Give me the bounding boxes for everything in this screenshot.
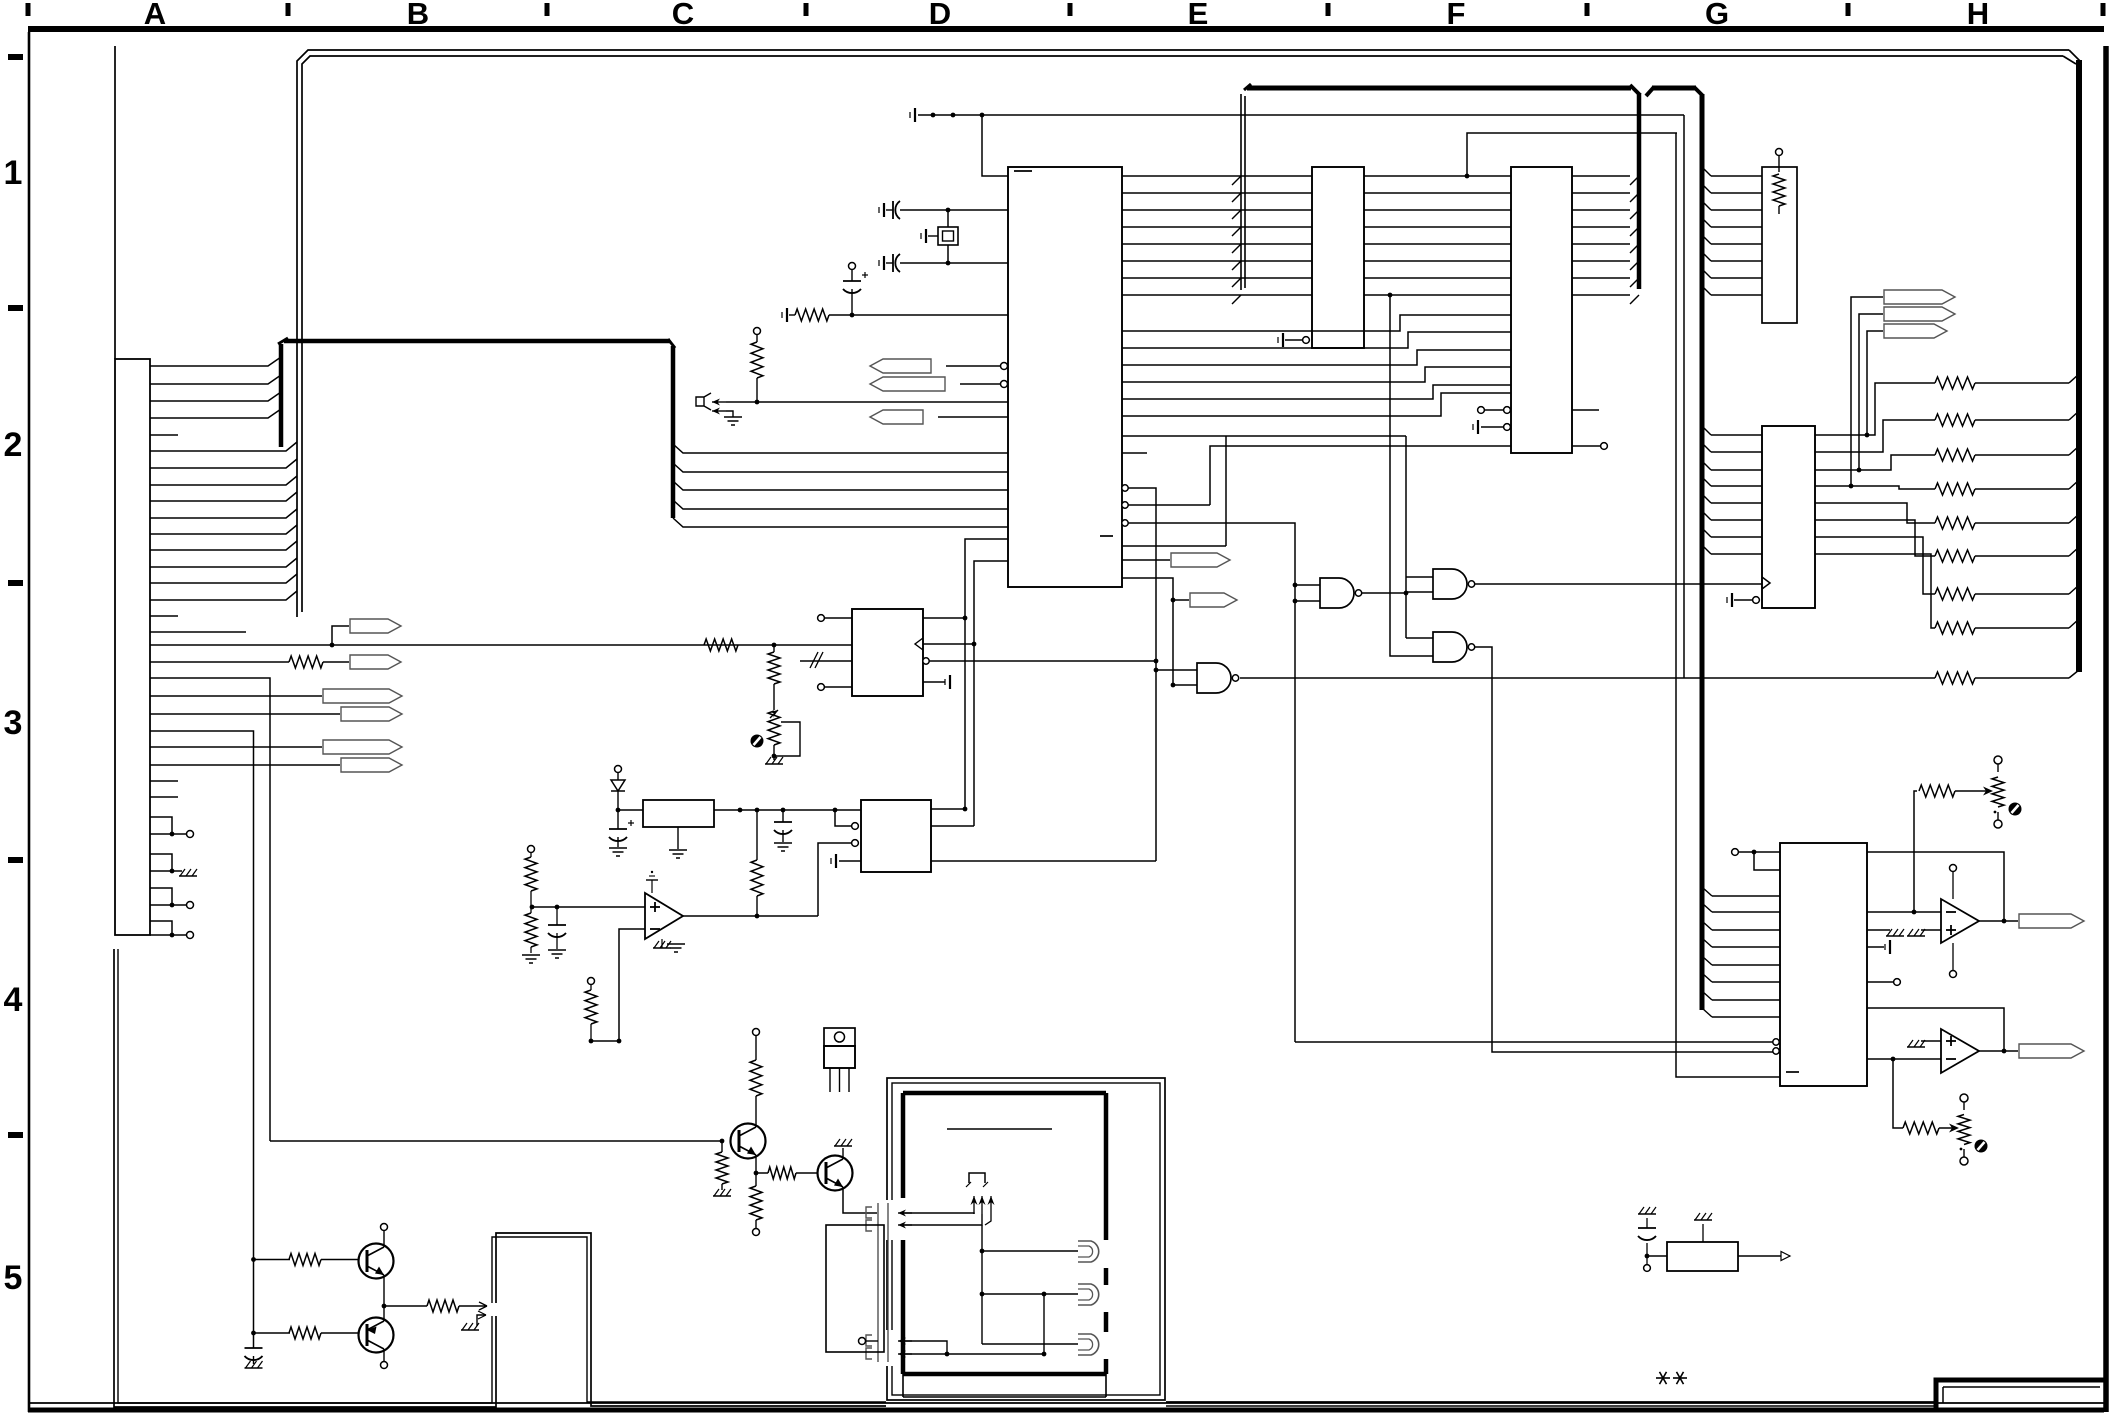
net flag FR3 xyxy=(1884,324,1947,338)
board outline bottom-right segment xyxy=(1166,1401,1935,1403)
CRT socket strip xyxy=(877,1203,879,1362)
OA0 supply marks xyxy=(651,880,653,893)
U6 top pin with testpoint circle xyxy=(1732,849,1739,856)
CRT heater bracket symbol xyxy=(969,1173,985,1183)
TR2 screw symbol xyxy=(2009,803,2022,816)
ladder resistors to right bus xyxy=(1935,377,1975,389)
TR1 screw symbol xyxy=(751,735,764,748)
decoupling cap C2 xyxy=(883,256,885,270)
svg-text:G: G xyxy=(1705,0,1729,31)
resistor R4 to ground xyxy=(786,308,788,322)
vertical V1 from bus wire y297 to GC input xyxy=(1388,293,1393,298)
CRT outer enclosure double box xyxy=(887,1078,1165,1400)
U4 pin3 with circle xyxy=(852,840,859,847)
speaker arrows xyxy=(712,401,726,403)
connector wire y678 to vertical x270 xyxy=(150,678,270,1141)
CRT cathode bus vertical xyxy=(981,1225,983,1344)
main IC U1 xyxy=(1008,167,1122,587)
OA0 - input wire from below xyxy=(619,929,645,1041)
cap C7 xyxy=(556,907,558,925)
IC G2 shift register xyxy=(1762,426,1815,608)
Q5 base resistor xyxy=(254,1259,291,1261)
contrast network vertical xyxy=(1914,791,1917,912)
electrolytic cap C5 xyxy=(609,828,627,830)
svg-text:5: 5 xyxy=(4,1259,23,1297)
svg-text:H: H xyxy=(1967,0,1989,31)
ground Q3 base xyxy=(713,1195,731,1197)
Q3 emitter node xyxy=(755,1155,757,1173)
vertical V2 x1406 to GB/GC inputs xyxy=(1405,436,1407,638)
delay line DL1 xyxy=(1667,1242,1738,1271)
regulator ground pin xyxy=(677,827,679,849)
net flag F560 xyxy=(1171,553,1230,567)
G2 output wires to resistor ladder xyxy=(1815,383,1935,435)
regulator output rail xyxy=(714,809,861,811)
NAND gate GC xyxy=(1433,632,1467,662)
connector jumper loop 1 with test point xyxy=(150,817,172,834)
flag verticals to G2 outputs xyxy=(1851,297,1883,486)
U1 pin y436 wire to V2 xyxy=(1122,435,1406,437)
ground C6 xyxy=(774,842,792,844)
U2 pin1 left with circle xyxy=(818,615,825,622)
bus B3 thick: connector group to U1 xyxy=(279,344,284,447)
Q3 collector resistor and testpoint xyxy=(755,1096,757,1127)
resistor R-sync on y645 xyxy=(704,639,738,651)
GA output wire xyxy=(1362,592,1406,594)
net flag FL2 (left) xyxy=(870,377,945,391)
LED heater H1 xyxy=(982,1250,1078,1252)
bus B1 left tap diagonals xyxy=(1232,176,1241,185)
IC2 ground pin with inverter circle xyxy=(1282,333,1284,347)
U1 flag pin y560 xyxy=(1122,559,1170,561)
net flag FL1 (left) xyxy=(870,359,931,373)
GA input wires from x1295 xyxy=(1295,584,1320,586)
CRT box tray lines xyxy=(902,1374,904,1397)
U2 inverted output y661 long wire xyxy=(923,658,929,664)
U1 pin y578 wire to flag xyxy=(1122,578,1173,685)
Q6 collector to output node xyxy=(383,1306,385,1321)
resistor R5 pullup xyxy=(754,328,761,335)
trimmer TR3 xyxy=(1960,1094,1968,1102)
connector wires group 1 to bus B3 xyxy=(150,357,281,366)
svg-text:D: D xyxy=(929,0,951,31)
U1 top supply rail y115 xyxy=(914,108,916,122)
U2 clock pin y644 xyxy=(915,638,923,650)
IC3 register xyxy=(1511,167,1572,453)
bus B1 right vertical thick xyxy=(1630,85,1640,95)
U4 right pins to x965/x974 xyxy=(931,808,965,810)
note asterisks xyxy=(1663,1377,1670,1379)
svg-text:F: F xyxy=(1447,0,1466,31)
voltage regulator U3 xyxy=(643,800,714,827)
bus B1 thick horizontal xyxy=(1247,86,1631,91)
wire pin488 down x1156 xyxy=(1128,488,1156,861)
U1 pin1 wire from rail xyxy=(982,115,1008,176)
transistor Q5 xyxy=(359,1244,394,1279)
bus B2 tap diagonals upper xyxy=(1702,167,1711,176)
U4 pin4 ground-bar xyxy=(835,854,837,868)
CRT inner thick box xyxy=(903,1091,1106,1096)
transistor Q3 xyxy=(731,1124,766,1159)
G2 ground pin with circle xyxy=(1731,593,1733,607)
ground C7 xyxy=(548,949,566,951)
U6 pin y982 nc circle xyxy=(1867,981,1893,983)
row tick dashes xyxy=(8,54,23,60)
op-amp OA1 xyxy=(1941,899,1979,943)
LED heater H2 xyxy=(982,1293,1078,1295)
U2 pin4 left with circle xyxy=(818,684,825,691)
wire x270 corner to Q3 base xyxy=(270,1140,722,1142)
connector stub pin y608 xyxy=(150,615,178,617)
svg-text:3: 3 xyxy=(4,704,23,742)
DL top pin chassis ground xyxy=(1702,1224,1704,1242)
OA1 supply circles xyxy=(1950,865,1957,872)
U6 pin y912 to op-amp xyxy=(1867,911,1941,913)
U4 pin2 loop with circle xyxy=(835,810,851,826)
IC3 top pin wire to rail y133 xyxy=(1467,133,1677,176)
U4 output pin y861 to x1156 xyxy=(931,860,1156,862)
op-amp OA2 xyxy=(1941,1029,1979,1073)
net flag F2 xyxy=(350,655,401,669)
bus B1 right tap diagonals xyxy=(1630,176,1639,185)
socket arrows into box xyxy=(898,1212,912,1214)
IC3 enable pins with circles and ground xyxy=(1478,407,1485,414)
OA2 output to flag xyxy=(1979,1050,2018,1052)
vertical x1684 rail down to GD output wire xyxy=(1683,115,1685,678)
crystal X1 xyxy=(947,212,949,227)
Q4 emitter to CRT socket xyxy=(843,1187,877,1213)
net flag FR1 xyxy=(1884,290,1955,304)
resistor divider top R xyxy=(528,846,535,853)
bus B2 taps to U6 xyxy=(1702,887,1712,896)
U6 pin y1008 feedback loop 2 xyxy=(1867,1008,2004,1051)
OA2 + input chassis ground xyxy=(1921,1040,1941,1042)
op-amp OA0 xyxy=(645,893,683,939)
wire y1042 to U6 inverted pin xyxy=(1295,1041,1773,1043)
wiper arrow into trimmer TR3 xyxy=(1939,1127,1954,1129)
CRT gun arrows xyxy=(973,1196,975,1214)
net flag F600 xyxy=(1173,599,1189,601)
board outline bottom-left step xyxy=(114,949,496,1407)
speaker symbol xyxy=(696,393,711,410)
diode D1 xyxy=(615,766,622,773)
decoupling cap C1 xyxy=(883,203,885,217)
Q4 collector chassis ground xyxy=(842,1148,844,1159)
CRT gun wiring xyxy=(904,1213,974,1214)
vertical feed x253 dots xyxy=(251,1257,256,1262)
transistor Q4 xyxy=(818,1156,853,1191)
U6 pin y930 chassis ground xyxy=(1867,929,1890,931)
U1 stub pin y453 xyxy=(1122,452,1147,454)
IC3 right pin with circle xyxy=(1572,445,1600,447)
OA1 output to flag xyxy=(1979,920,2018,922)
CRT grid wiring xyxy=(1043,1294,1045,1354)
connector wire y765 to flag xyxy=(150,764,340,766)
vertical x974 U1 to U2/U4 xyxy=(974,561,1008,826)
DL cap chassis ground xyxy=(1638,1213,1656,1215)
connector wire y632 stub xyxy=(150,631,246,633)
column tick marks xyxy=(26,3,31,16)
net flag F6 xyxy=(341,758,402,772)
ladder resistor R-GD xyxy=(1935,672,1975,684)
TR1 ground xyxy=(765,763,783,765)
connector CN1 body xyxy=(115,359,150,935)
net flag VOUT1 xyxy=(2019,914,2084,928)
LED heater H3 xyxy=(982,1343,1078,1345)
ground C5 xyxy=(609,847,627,849)
net flag FL3 (left) xyxy=(870,410,923,424)
bus B3 output wires to U1 xyxy=(673,444,1008,453)
IC3 right stub xyxy=(1572,409,1599,411)
U2 right pin y618 xyxy=(923,617,965,619)
OA0 output wire xyxy=(683,915,818,917)
connector wire y731 to vertical x253 xyxy=(150,731,254,1348)
OA0 + input wire xyxy=(532,906,645,908)
cap C8 bottom xyxy=(245,1347,263,1349)
NAND gate GB xyxy=(1433,569,1467,599)
U6 feedback pin y852 loop xyxy=(1867,852,2004,921)
resistor pack RP1 xyxy=(1762,167,1797,323)
edge arrow ground return xyxy=(477,1315,486,1326)
IC U4 oscillator xyxy=(861,800,931,872)
bus B2 tap diagonals to G2 xyxy=(1702,426,1711,435)
U2 pin3 stub with continuation slashes xyxy=(800,660,852,662)
gain network vertical xyxy=(1893,1059,1903,1128)
resistor divider bottom R xyxy=(530,907,532,913)
resistor R-F2 xyxy=(150,661,289,663)
NAND gate GD xyxy=(1197,663,1231,693)
svg-text:E: E xyxy=(1188,0,1209,31)
IC U2 timer xyxy=(852,609,923,696)
GD input wires xyxy=(1156,669,1197,671)
wire pin523 to x1295 xyxy=(1128,523,1295,1042)
svg-text:B: B xyxy=(407,0,429,31)
bus B2 thick xyxy=(1646,87,1654,96)
cap C6 on rail xyxy=(782,810,784,822)
NAND gate GA xyxy=(1320,578,1354,608)
DL input cap xyxy=(1647,1255,1667,1257)
svg-text:4: 4 xyxy=(4,981,23,1019)
video output IC U6 xyxy=(1780,843,1867,1086)
coupling resistor Q3-Q4 xyxy=(756,1172,768,1174)
connector wire y696 to flag xyxy=(150,695,322,697)
resistor R-fb rail to opamp output xyxy=(756,810,758,860)
Q3 emitter resistor to testpoint xyxy=(755,1173,757,1186)
Q3 base resistor to ground xyxy=(721,1141,723,1152)
connector wire y714 to flag xyxy=(150,713,340,715)
TO-220 package symbol Q-reg xyxy=(824,1028,855,1046)
resistor R-gain xyxy=(1903,1122,1939,1134)
U6 inverted pin2 xyxy=(1773,1048,1779,1054)
Q6 emitter testpoint xyxy=(383,1349,385,1361)
DL output arrow xyxy=(1738,1255,1790,1257)
U2 ground pin y682 xyxy=(923,681,945,683)
output resistor to edge arrow xyxy=(384,1305,427,1307)
G2 clock pin xyxy=(1762,577,1770,589)
net flag F5 xyxy=(323,740,402,754)
GB second input xyxy=(1406,591,1433,593)
vertical x818 opamp out to U4 xyxy=(818,843,830,916)
svg-text:C: C xyxy=(672,0,694,31)
connector jumper loop 4 with test point xyxy=(150,921,172,935)
trimmer TR2 xyxy=(1994,756,2002,764)
net flag F1 xyxy=(332,626,349,645)
trimmer network TR1 below y645 xyxy=(772,643,777,648)
OA1 + input chassis ground xyxy=(1921,929,1941,931)
connector wires group 2 to bus B4 xyxy=(150,442,297,451)
edge arrow out xyxy=(479,1302,487,1310)
connector stub pin y435 xyxy=(150,434,178,436)
bottom-right title block xyxy=(1936,1380,2104,1408)
CRT title line xyxy=(947,1128,1052,1130)
OA2 - input wire from U6 xyxy=(1867,1058,1941,1060)
net flag F3 xyxy=(323,689,402,703)
vertical x965 U1 to U2/U4 xyxy=(965,539,1008,809)
U1 to IC3 staircase wires xyxy=(1122,315,1511,331)
GC output wire down x1492 xyxy=(1475,647,1773,1052)
board outline left edge upper xyxy=(114,46,116,359)
GB output long wire to G2 clock xyxy=(1475,583,1762,585)
electrolytic cap C3 with pullup xyxy=(849,263,856,270)
IC3 pin wire y446 from U1 xyxy=(1128,504,1210,506)
svg-text:1: 1 xyxy=(4,154,23,192)
connector jumper loop 2 with chassis ground xyxy=(150,854,172,871)
deflection block U5 xyxy=(826,1225,884,1352)
resistor R-contrast xyxy=(1919,785,1955,797)
U6 pin y947 ground xyxy=(1867,946,1884,948)
connector jumper loop 3 with test point xyxy=(150,888,172,905)
resistor R-inv with testpoint xyxy=(588,978,595,985)
bus B4 right vertical thick xyxy=(2076,60,2082,672)
connector stub pins xyxy=(150,780,178,782)
ground divider xyxy=(522,954,540,956)
wire speaker to U1 xyxy=(726,401,1008,403)
8-bit bus wires U1 to IC2 to IC3 to resistor pack xyxy=(1122,175,1312,177)
vertical x1676 to U6 video input xyxy=(1676,133,1780,1077)
Q5 collector testpoint xyxy=(383,1231,385,1247)
ground C8 xyxy=(245,1367,263,1369)
connector wire y747 to flag xyxy=(150,746,322,748)
Q5 emitter to output node xyxy=(383,1275,385,1306)
net flag FR2 xyxy=(1884,307,1955,321)
GD output long wire to ladder resistor xyxy=(1240,677,1935,679)
bus B4 double-line: connector to top rail to right-edge xyxy=(297,50,2069,617)
net flag VOUT2 xyxy=(2019,1044,2084,1058)
U1 feedback loop pin436 to pin546 xyxy=(1225,436,1227,546)
DL input test circle xyxy=(1646,1256,1648,1264)
svg-text:A: A xyxy=(144,0,166,31)
svg-text:2: 2 xyxy=(4,426,23,464)
ground regulator xyxy=(669,849,687,851)
bus B1 left double vertical xyxy=(1240,94,1242,290)
transistor Q6 xyxy=(359,1318,394,1353)
IC2 register xyxy=(1312,167,1364,348)
wiper arrow into trimmer TR2 xyxy=(1955,790,1988,792)
TR3 screw symbol xyxy=(1975,1140,1988,1153)
socket test point circle xyxy=(859,1338,866,1345)
U1 inverted outputs with circles xyxy=(1122,485,1128,491)
Q6 base resistor xyxy=(254,1332,291,1334)
net flag F4 xyxy=(341,707,402,721)
connector wire y645 long to U2 xyxy=(150,644,852,646)
ground for speaker return xyxy=(726,411,733,417)
